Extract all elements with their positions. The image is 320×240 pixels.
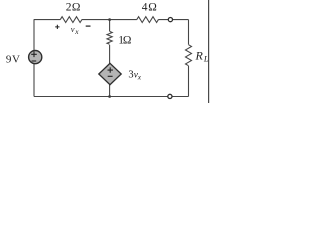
svg-text:x: x	[74, 27, 79, 36]
svg-text:V: V	[12, 53, 20, 65]
terminal b (bottom open circle)	[168, 94, 172, 98]
svg-text:v: v	[71, 24, 75, 34]
label 3vx	[128, 69, 141, 81]
wire top middle segment	[82, 19, 137, 21]
label 2 ohm	[66, 2, 81, 14]
label minus of vx	[86, 25, 91, 27]
resistor 4 ohm zigzag	[137, 17, 159, 23]
svg-text:4: 4	[142, 2, 148, 14]
svg-text:x: x	[137, 73, 142, 82]
border rule right	[208, 0, 210, 103]
svg-text:Ω: Ω	[148, 2, 157, 14]
svg-text:9: 9	[6, 53, 12, 65]
svg-text:L: L	[203, 54, 209, 64]
wire bottom return	[34, 96, 189, 98]
voltage source V1 9V circle	[29, 51, 42, 64]
label 9 V	[6, 53, 20, 65]
label 4 ohm	[142, 2, 157, 14]
dependent source 3vx diamond	[99, 63, 121, 84]
node junction top	[108, 18, 111, 21]
label vx	[71, 24, 79, 36]
resistor 2 ohm zigzag	[60, 17, 82, 23]
label plus of vx	[55, 25, 59, 29]
label RL	[195, 49, 209, 64]
wire middle branch	[109, 20, 111, 97]
terminal a (top open circle)	[168, 18, 172, 22]
svg-text:R: R	[195, 49, 204, 63]
resistor 1 ohm zigzag vertical	[106, 31, 113, 45]
node junction bottom	[108, 95, 111, 98]
resistor RL zigzag vertical	[185, 45, 192, 66]
wire top left segment	[34, 19, 61, 21]
wire top right segment	[158, 19, 188, 21]
wire right side (RL branch)	[188, 20, 190, 97]
svg-text:Ω: Ω	[72, 2, 81, 14]
svg-text:Ω: Ω	[123, 35, 132, 47]
wire left side (9V branch)	[33, 20, 35, 97]
svg-text:2: 2	[66, 2, 72, 14]
label 1 ohm	[118, 35, 131, 47]
